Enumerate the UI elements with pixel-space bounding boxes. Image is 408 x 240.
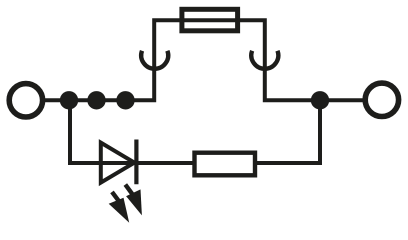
disconnect socket right [251,51,278,69]
fuse F1 [182,9,238,31]
left terminal circle [9,84,42,117]
right terminal circle [365,83,398,116]
diode LED triangle [101,143,135,183]
junction dot 1 [60,91,78,109]
LED emission arrow left [109,192,130,223]
wire LED branch [70,100,320,163]
LED emission arrow right [125,185,142,216]
diode LED cathode bar [134,140,138,185]
disconnect socket left [141,51,168,69]
wire main loop [45,20,364,100]
junction dot 2 [87,91,105,109]
junction dot 3 [116,91,134,109]
resistor R1 [195,153,256,176]
junction dot right [311,91,329,109]
